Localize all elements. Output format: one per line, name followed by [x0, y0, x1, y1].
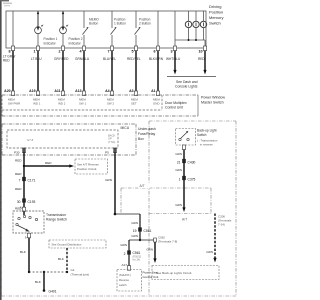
svg-text:C193: C193	[28, 200, 36, 204]
svg-text:Master Switch: Master Switch	[201, 101, 224, 105]
svg-text:SW 2: SW 2	[107, 102, 114, 106]
svg-text:Power Window: Power Window	[201, 96, 225, 100]
svg-text:BLK/GRN: BLK/GRN	[149, 57, 164, 61]
svg-text:Reverse: Reverse	[119, 278, 130, 282]
see A/T reverse position circuit box	[75, 159, 108, 174]
branch node	[23, 165, 25, 167]
MICU inner box	[7, 130, 118, 148]
fuse box output tabs	[22, 148, 25, 153]
switch position 2 button blade	[135, 28, 141, 35]
svg-text:Driving: Driving	[209, 4, 221, 9]
indicator lamp position 1 indicator	[35, 27, 42, 34]
wire position 1 indicator upper	[37, 11, 39, 27]
svg-text:GRN: GRN	[175, 152, 182, 156]
see back-up lights circuit box	[152, 266, 219, 280]
svg-text:2: 2	[124, 252, 126, 256]
switch MEMO button upper wire	[83, 11, 85, 28]
connector C561 pin 2	[127, 250, 131, 254]
svg-text:1: 1	[34, 50, 36, 54]
svg-text:IND 2: IND 2	[58, 102, 66, 106]
svg-text:Position 2: Position 2	[69, 37, 83, 41]
svg-text:RED/YEL: RED/YEL	[127, 57, 141, 61]
arrow down position 1 indicator	[37, 26, 40, 30]
svg-text:A19: A19	[29, 89, 35, 93]
wire w1	[12, 11, 14, 48]
svg-text:RED: RED	[3, 59, 10, 63]
connector C430	[182, 159, 186, 163]
svg-text:Position Circuit.: Position Circuit.	[77, 167, 97, 171]
svg-text:Under-dash: Under-dash	[138, 127, 156, 131]
switch position 2 button upper wire	[135, 11, 137, 28]
svg-text:6: 6	[154, 50, 156, 54]
connector tabs top box bottom	[11, 46, 14, 51]
power window master switch bottom border	[2, 115, 198, 117]
tab TRS output	[27, 233, 30, 238]
wire across low	[129, 239, 155, 241]
svg-text:GRN/BLU: GRN/BLU	[75, 57, 90, 61]
svg-text:A3: A3	[129, 89, 134, 93]
svg-text:P30: P30	[14, 151, 20, 155]
node dot wire position 2 indicator	[62, 12, 64, 14]
svg-text:19: 19	[133, 229, 137, 233]
svg-text:4: 4	[80, 50, 83, 54]
C206 dashed wire	[214, 214, 216, 260]
svg-text:G2: G2	[71, 268, 75, 272]
see dash and console lights	[167, 76, 216, 78]
reverse switch dashed box	[117, 270, 142, 292]
svg-text:Button: Button	[89, 22, 98, 26]
lower pin labels	[4, 89, 155, 93]
connector C561 pin 19	[138, 227, 142, 231]
wire MICU down	[114, 148, 116, 214]
svg-text:3: 3	[171, 50, 173, 54]
svg-text:2 Button: 2 Button	[139, 22, 151, 26]
svg-text:A13: A13	[75, 89, 81, 93]
power window master switch right border	[197, 95, 199, 116]
svg-text:Switch: Switch	[209, 21, 221, 26]
svg-text:Back-up Light: Back-up Light	[197, 129, 217, 133]
svg-text:A1: A1	[151, 89, 156, 93]
illumination lamp at x=188.5	[188, 11, 190, 21]
wire down to power seat control unit	[128, 240, 130, 266]
svg-text:21: 21	[177, 160, 181, 164]
svg-text:GRN: GRN	[146, 248, 153, 252]
svg-text:Range Switch: Range Switch	[46, 218, 67, 222]
page left border	[0, 0, 2, 300]
svg-text:in reverse: in reverse	[200, 143, 213, 147]
svg-text:2: 2	[59, 50, 61, 54]
wire position 1 indicator lower	[37, 34, 39, 48]
reference frame	[1, 124, 3, 296]
svg-text:LT BLU: LT BLU	[31, 57, 42, 61]
svg-text:BLK: BLK	[20, 250, 27, 254]
svg-text:GRN: GRN	[206, 250, 213, 254]
svg-text:7: 7	[19, 178, 21, 182]
indicator lamp position 2 indicator	[60, 27, 67, 34]
svg-text:G401: G401	[49, 290, 57, 294]
svg-text:Memory: Memory	[209, 15, 223, 20]
svg-text:GRN: GRN	[131, 234, 138, 238]
branch wire to reverse position circuit	[24, 165, 71, 167]
node dot wire position 1 indicator	[37, 12, 39, 14]
svg-text:Box: Box	[138, 137, 144, 141]
svg-text:10: 10	[198, 50, 202, 54]
svg-text:Fuse/Relay: Fuse/Relay	[138, 132, 155, 136]
svg-text:P5: P5	[105, 151, 109, 155]
svg-text:9: 9	[25, 235, 27, 239]
ground rail dashed	[29, 271, 67, 273]
svg-text:SW PWR: SW PWR	[8, 102, 20, 106]
svg-text:8: 8	[9, 50, 11, 54]
connector C375	[182, 176, 186, 180]
see ground distribution box	[49, 240, 106, 248]
wire to G401	[43, 272, 45, 291]
wire position 2 indicator upper	[62, 11, 64, 27]
transmission range switch contacts	[18, 217, 20, 219]
svg-text:5: 5	[132, 50, 134, 54]
svg-text:A/T: A/T	[140, 184, 145, 188]
svg-text:8: 8	[20, 206, 22, 210]
svg-text:GRY/RED: GRY/RED	[54, 57, 69, 61]
svg-text:GRN: GRN	[120, 243, 127, 247]
arrow down position 2 indicator	[62, 26, 65, 30]
harness wires	[12, 51, 14, 91]
svg-text:See A/T Reverse: See A/T Reverse	[77, 163, 99, 167]
wire TRS to ground rail	[28, 238, 30, 272]
svg-text:1 Button: 1 Button	[114, 22, 126, 26]
switch position 1 button blade	[111, 28, 117, 35]
svg-text:switch: switch	[119, 283, 127, 287]
faint page header remnant	[3, 3, 12, 5]
switch position 1 button upper wire	[111, 11, 113, 28]
svg-text:30: 30	[17, 200, 21, 204]
svg-text:G7-8: G7-8	[27, 138, 34, 142]
svg-text:GRN: GRN	[175, 203, 182, 207]
lamp bus	[175, 39, 205, 41]
node C561 branch	[139, 239, 141, 241]
svg-text:7-14): 7-14)	[218, 223, 225, 227]
A/T divider right	[149, 213, 211, 215]
page top edge remnant	[0, 0, 9, 1]
node A/T junction	[114, 213, 117, 216]
under-dash fuse/relay box outer	[2, 123, 136, 125]
svg-text:(Thermal joint): (Thermal joint)	[71, 273, 90, 277]
tab TRS input	[22, 207, 25, 211]
back-up light switch box	[176, 129, 196, 146]
arrow to dash lights 1	[173, 70, 176, 75]
svg-text:1: 1	[179, 177, 181, 181]
svg-text:See Dash and: See Dash and	[176, 80, 198, 84]
rail node 3	[66, 271, 68, 273]
svg-text:WHT/BLU: WHT/BLU	[166, 57, 181, 61]
svg-text:Transmission: Transmission	[46, 213, 66, 217]
wire down to C561 pin 19	[139, 214, 141, 240]
switch position 2 button lower wire	[135, 35, 137, 48]
ground G401 node	[43, 289, 46, 292]
svg-text:IND 1: IND 1	[33, 102, 41, 106]
rail node 2	[43, 271, 45, 273]
connector C171	[22, 177, 26, 181]
svg-text:GRN: GRN	[131, 221, 138, 225]
svg-text:C171: C171	[28, 178, 36, 182]
dashed ground wire	[66, 248, 68, 272]
svg-text:Door Multiplex: Door Multiplex	[165, 101, 187, 105]
svg-text:Indicator: Indicator	[69, 42, 82, 46]
rail node 1	[28, 271, 30, 273]
svg-text:BLK: BLK	[35, 280, 42, 284]
switch MEMO button blade	[83, 28, 89, 35]
driving position memory switch box	[6, 11, 206, 48]
svg-text:A20: A20	[4, 89, 10, 93]
C562 tab	[154, 238, 157, 242]
svg-text:BLK: BLK	[58, 257, 65, 261]
svg-text:RED: RED	[45, 161, 52, 165]
switch position 1 button lower wire	[111, 35, 113, 48]
svg-text:SW 1: SW 1	[79, 102, 86, 106]
svg-text:A11: A11	[54, 89, 60, 93]
svg-text:RED: RED	[15, 187, 22, 191]
svg-text:(Terminals 7-8): (Terminals 7-8)	[158, 240, 177, 244]
svg-text:C375: C375	[188, 177, 196, 181]
svg-text:C561: C561	[144, 229, 152, 233]
svg-text:Position: Position	[209, 10, 223, 15]
svg-text:Indicator: Indicator	[44, 42, 57, 46]
wire across to C561 drop	[115, 213, 140, 215]
svg-text:(SHUNT-): (SHUNT-)	[119, 273, 131, 277]
back-up switch contacts	[179, 138, 181, 140]
wire w7	[157, 11, 159, 48]
svg-text:See Ground Distribution: See Ground Distribution	[52, 243, 82, 247]
svg-text:RED: RED	[15, 172, 22, 176]
pin numbers top box	[9, 50, 203, 54]
connector C193	[22, 198, 26, 202]
illumination lamp at x=203.5	[203, 11, 205, 21]
illumination lamp at x=196	[195, 11, 197, 21]
svg-text:Console Lights: Console Lights	[175, 85, 198, 89]
wire C562 down	[154, 242, 156, 259]
power window master switch top border	[2, 94, 198, 96]
svg-text:Switch: Switch	[197, 133, 207, 137]
wire position 2 indicator lower	[62, 34, 64, 48]
tab back-up switch	[182, 145, 185, 150]
svg-text:No.14): No.14)	[133, 259, 141, 262]
svg-text:Control Unit: Control Unit	[165, 106, 183, 110]
wire fuse to TRS	[23, 148, 25, 215]
switch blade	[18, 226, 28, 231]
svg-text:Position 1: Position 1	[44, 37, 58, 41]
lower connector tabs	[11, 91, 14, 96]
svg-text:C561: C561	[133, 251, 141, 255]
svg-text:See Back-up Lights Circuit.: See Back-up Lights Circuit.	[156, 271, 192, 275]
svg-text:GRN: GRN	[175, 168, 182, 172]
svg-text:C430: C430	[188, 160, 196, 164]
svg-text:RED: RED	[15, 159, 22, 163]
svg-text:Control Unit: Control Unit	[143, 275, 159, 279]
transmission range switch box	[13, 211, 44, 233]
svg-text:A4: A4	[105, 89, 110, 93]
svg-text:MICU: MICU	[121, 126, 130, 130]
svg-text:GND: GND	[153, 102, 159, 106]
door multiplex control unit inner box	[2, 109, 162, 111]
svg-text:BLU/YEL: BLU/YEL	[103, 57, 116, 61]
svg-text:A/T: A/T	[182, 218, 187, 222]
svg-text:GRN: GRN	[105, 178, 112, 182]
arrow to dash lights 2	[203, 70, 206, 75]
A/T divider left	[121, 187, 211, 189]
svg-text:(7.5A): (7.5A)	[108, 140, 115, 144]
switch MEMO button lower wire	[83, 35, 85, 48]
wire to pin 3	[174, 11, 176, 48]
svg-text:7: 7	[108, 50, 110, 54]
wire to pin 10	[204, 40, 206, 48]
tab power seat	[127, 266, 130, 271]
svg-text:A17: A17	[121, 263, 127, 267]
svg-text:SET: SET	[131, 102, 137, 106]
wire back-up switch down	[183, 150, 185, 209]
